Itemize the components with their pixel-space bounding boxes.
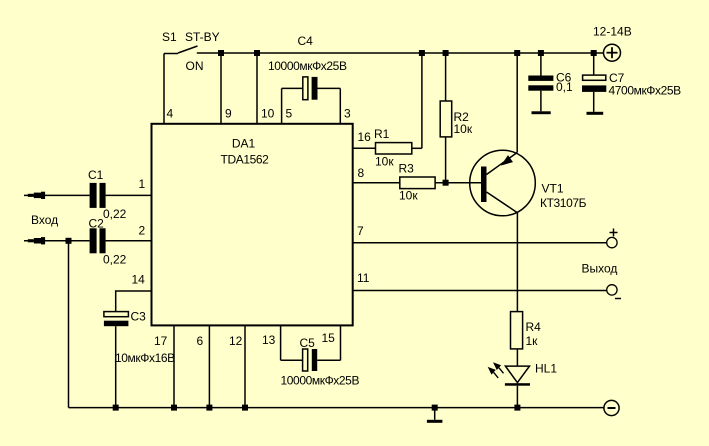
svg-text:10000мкФх25В: 10000мкФх25В [281, 374, 360, 388]
svg-text:14: 14 [132, 273, 146, 287]
svg-text:10к: 10к [399, 189, 418, 203]
op-amp IC DA1 TDA1562 [132, 107, 372, 349]
wire bottom ground rail [69, 407, 605, 409]
node junction pin6/rail [206, 405, 212, 411]
capacitor C4 [268, 34, 347, 124]
svg-text:17: 17 [154, 334, 168, 348]
svg-text:10: 10 [261, 107, 275, 121]
svg-text:HL1: HL1 [535, 362, 557, 376]
node junction LED/rail [514, 405, 520, 411]
resistor R3 [353, 162, 481, 203]
svg-text:3: 3 [344, 107, 351, 121]
capacitor C3 [104, 310, 175, 408]
node junction pin17/rail [171, 405, 177, 411]
svg-text:12: 12 [229, 334, 243, 348]
terminal supply minus [604, 400, 619, 415]
svg-text:4: 4 [167, 107, 174, 121]
node junction emitter/rail [514, 50, 520, 56]
svg-text:0,22: 0,22 [103, 207, 127, 221]
svg-text:15: 15 [322, 331, 336, 345]
node junction R2/rail [443, 50, 449, 56]
LED HL1 [488, 362, 558, 386]
node junction C6/rail [538, 50, 544, 56]
svg-text:Выход: Выход [582, 262, 618, 276]
svg-text:1: 1 [139, 177, 146, 191]
transistor VT1 [470, 150, 587, 216]
capacitor C2 [89, 217, 152, 267]
capacitor C7 [582, 53, 681, 112]
capacitor C1 [88, 168, 152, 221]
input arrow 1 [24, 192, 90, 199]
svg-text:6: 6 [197, 334, 204, 348]
svg-text:10к: 10к [454, 122, 473, 136]
svg-text:R3: R3 [399, 162, 415, 176]
node junction pin10/rail [254, 50, 260, 56]
svg-text:C4: C4 [298, 34, 314, 48]
capacitor C5 [281, 325, 360, 387]
resistor R1 [353, 127, 422, 169]
wire pin 7 output plus [353, 242, 607, 244]
terminal supply plus 12-14V [593, 25, 632, 62]
svg-text:8: 8 [358, 166, 365, 180]
svg-text:11: 11 [357, 271, 370, 285]
svg-text:1к: 1к [526, 334, 539, 348]
svg-text:0,22: 0,22 [103, 253, 127, 267]
node junction R2/pin8 [443, 180, 449, 186]
ground [427, 408, 443, 423]
svg-text:2: 2 [139, 224, 146, 238]
wire top supply rail [197, 52, 604, 54]
svg-text:4700мкФх25В: 4700мкФх25В [609, 84, 682, 98]
svg-text:C5: C5 [300, 336, 316, 350]
svg-text:12-14В: 12-14В [593, 25, 632, 39]
node junction R1/rail [419, 50, 425, 56]
wire pin 12 [244, 325, 246, 407]
terminal output plus [607, 229, 618, 248]
switch S1 [162, 30, 220, 73]
resistor R4 [511, 312, 542, 367]
input arrow 2 [24, 237, 90, 244]
svg-text:VT1: VT1 [542, 182, 564, 196]
svg-text:5: 5 [286, 107, 293, 121]
node junction pin12/rail [242, 405, 248, 411]
wire R1 to rail [421, 53, 423, 148]
svg-text:C3: C3 [131, 310, 147, 324]
svg-text:Вход: Вход [31, 213, 58, 227]
node junction ground/rail [432, 405, 438, 411]
wire ground left [68, 241, 70, 408]
node junction C3/rail [113, 405, 119, 411]
wire pin 10 [256, 53, 258, 124]
svg-text:S1: S1 [162, 30, 177, 44]
svg-text:C2: C2 [89, 217, 105, 231]
node junction C7/rail [591, 50, 597, 56]
ground C7 [587, 112, 604, 115]
svg-text:0,1: 0,1 [556, 80, 573, 94]
svg-text:9: 9 [225, 107, 232, 121]
svg-text:C1: C1 [88, 168, 104, 182]
node junction input/ground [66, 238, 72, 244]
wire pin 4 [163, 54, 165, 124]
wire LED to rail [516, 386, 518, 408]
svg-text:TDA1562: TDA1562 [221, 153, 270, 167]
svg-text:10к: 10к [375, 155, 394, 169]
svg-text:7: 7 [357, 224, 364, 238]
ground C6 [532, 111, 551, 114]
svg-text:16: 16 [358, 130, 372, 144]
wire pin 9 [220, 53, 222, 124]
svg-text:R4: R4 [526, 320, 542, 334]
svg-text:R1: R1 [374, 127, 390, 141]
wire emitter to rail [516, 53, 518, 153]
svg-text:13: 13 [262, 333, 276, 347]
svg-text:10000мкФх25В: 10000мкФх25В [268, 59, 347, 73]
wire pin 14 [116, 291, 152, 312]
svg-text:ON: ON [186, 59, 204, 73]
svg-text:ST-BY: ST-BY [185, 30, 220, 44]
wire pin 6 [208, 325, 210, 407]
capacitor C6 [528, 53, 573, 111]
svg-text:DA1: DA1 [232, 137, 256, 151]
svg-text:10мкФх16В: 10мкФх16В [115, 351, 175, 365]
terminal output minus [607, 285, 621, 299]
wire pin 17 [173, 325, 175, 407]
svg-text:КТ3107Б: КТ3107Б [540, 196, 587, 210]
resistor R2 [440, 53, 473, 183]
node junction pin9/rail [218, 50, 224, 56]
wire collector down [516, 213, 518, 312]
wire pin 11 output minus [353, 290, 607, 292]
